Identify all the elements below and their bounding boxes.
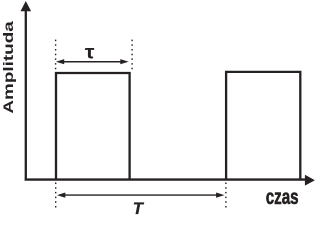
pulse 1 xyxy=(56,73,130,180)
x-axis xyxy=(25,178,306,180)
T dotted line right xyxy=(225,183,227,209)
tau dimension arrow xyxy=(56,59,129,64)
x-axis arrowhead xyxy=(305,175,315,186)
T dimension arrow xyxy=(57,193,224,198)
svg-text:Amplituda: Amplituda xyxy=(0,20,16,113)
svg-text:τ: τ xyxy=(85,42,95,64)
tau dotted line left xyxy=(55,40,57,72)
y-axis xyxy=(25,9,27,181)
pulse 2 xyxy=(226,72,300,180)
tau dotted line right xyxy=(131,40,133,72)
T dotted line left xyxy=(55,183,57,209)
svg-text:czas: czas xyxy=(266,185,299,209)
y-axis arrowhead xyxy=(21,1,32,11)
